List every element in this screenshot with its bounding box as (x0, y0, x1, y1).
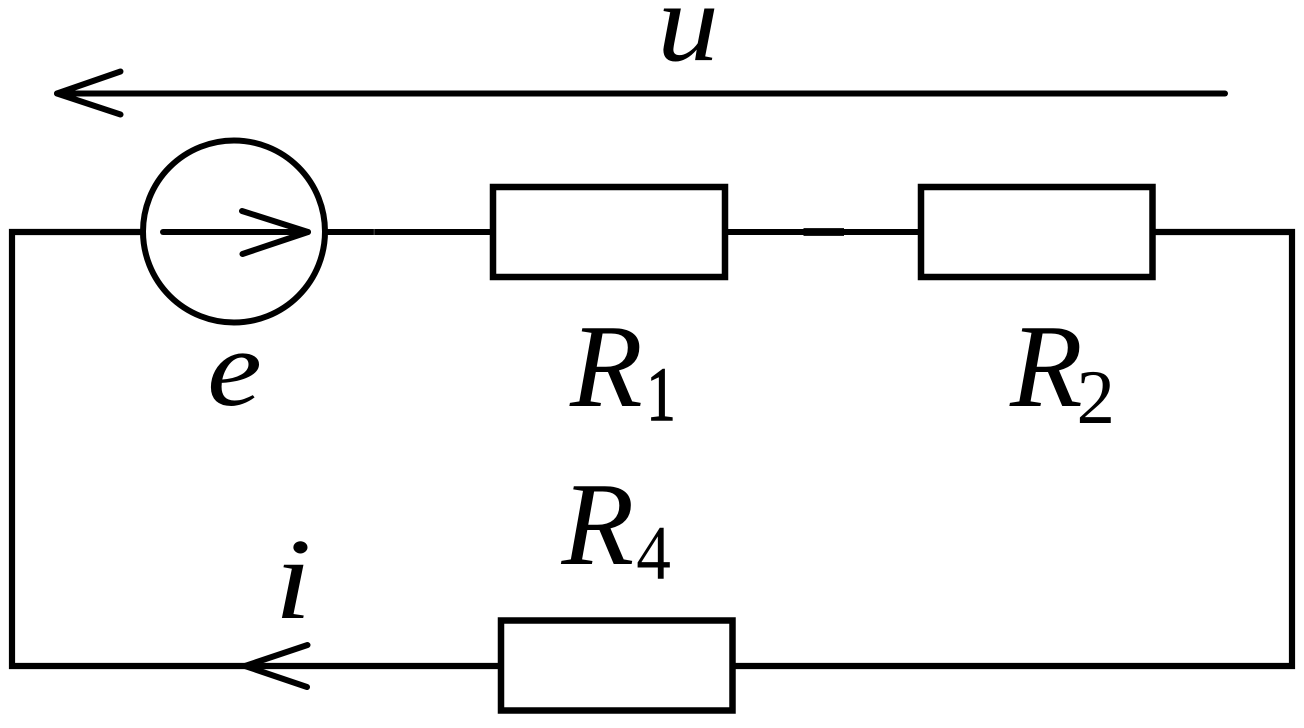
svg-text:1: 1 (647, 353, 676, 437)
current arrow i (245, 645, 308, 687)
svg-text:R: R (561, 458, 635, 590)
svg-text:i: i (274, 516, 311, 644)
resistor R1 (493, 187, 725, 277)
voltage arrow u (57, 72, 1225, 115)
label R1 (569, 300, 675, 437)
wire: source to node at x=374 (325, 229, 374, 235)
voltage source e (143, 141, 325, 323)
label R2 (1009, 300, 1115, 440)
svg-text:R: R (569, 300, 643, 432)
svg-text:R: R (1009, 300, 1083, 432)
svg-text:u: u (657, 0, 719, 85)
wire: top-right, right side and bottom-right of loop (733, 232, 1293, 666)
label R4 (561, 458, 671, 595)
resistor R4 (501, 621, 733, 711)
svg-text:e: e (207, 308, 262, 429)
wire: top-left, left side and bottom-left of loop (12, 232, 501, 666)
wire: node to R1 left pin (374, 229, 493, 235)
svg-text:2: 2 (1077, 354, 1116, 440)
resistor R2 (921, 187, 1153, 277)
wire junction overlap between R1 and R2 (804, 228, 845, 236)
wire: R1 right pin to R2 left pin (725, 229, 921, 235)
svg-text:4: 4 (636, 510, 671, 595)
